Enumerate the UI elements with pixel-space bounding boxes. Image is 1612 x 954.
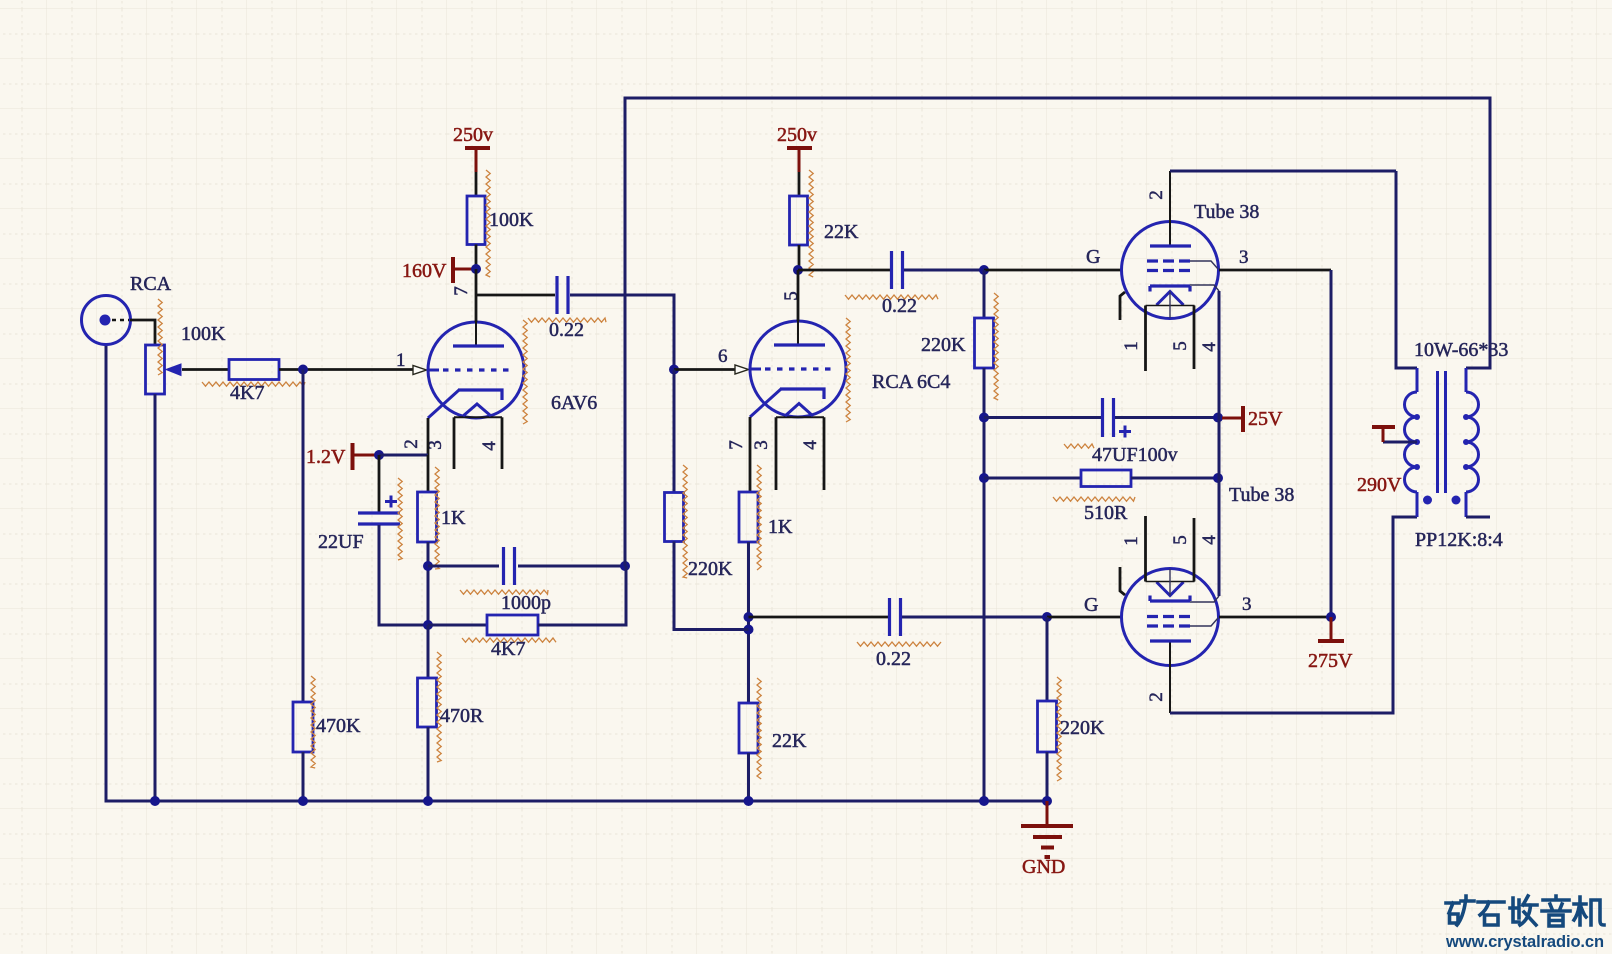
svg-text:0.22: 0.22 — [882, 295, 917, 317]
wire 220K gridleak column — [673, 370, 676, 493]
svg-text:2: 2 — [401, 439, 422, 449]
capacitor C 22UF polarized — [358, 496, 400, 525]
svg-text:0.22: 0.22 — [876, 648, 911, 670]
hatch 22UF — [398, 478, 402, 560]
capacitor C 1000p — [504, 547, 515, 585]
svg-text:470K: 470K — [316, 715, 361, 737]
svg-text:PP12K:8:4: PP12K:8:4 — [1415, 529, 1503, 551]
power port 25V — [1222, 406, 1243, 432]
svg-text:25V: 25V — [1248, 408, 1283, 430]
node junction 47UF left — [979, 413, 989, 423]
hatch 0.22 lower — [857, 642, 941, 646]
resistor R 4K7 input — [229, 360, 279, 380]
wire 470K to rail — [302, 752, 305, 801]
svg-text:22UF: 22UF — [318, 531, 364, 553]
resistor R 220K output grid — [1038, 701, 1057, 752]
hatch 1000p — [460, 590, 548, 594]
wire 47UF row — [984, 416, 1101, 419]
node junction 160V — [471, 264, 481, 274]
svg-text:1K: 1K — [768, 516, 793, 538]
resistor R 470K — [293, 702, 313, 752]
svg-text:250v: 250v — [777, 124, 817, 146]
svg-text:RCA 6C4: RCA 6C4 — [872, 371, 950, 393]
wire plate to tube1 — [475, 269, 478, 322]
wire 4K7 row left — [428, 624, 487, 627]
svg-text:1: 1 — [396, 350, 406, 371]
wire tube2 cathode pin7 — [749, 417, 752, 492]
svg-text:4: 4 — [800, 440, 821, 450]
transformer core — [1438, 371, 1446, 493]
wire screen column — [1330, 270, 1333, 617]
capacitor C 0.22 stage1 — [557, 276, 568, 314]
pentode U4 Tube 38 bottom — [1120, 516, 1219, 713]
hatch 220K bias — [994, 293, 998, 400]
wire 4K7 row right up to feedback node — [538, 566, 626, 625]
hatch 0.22 stage2 — [845, 295, 938, 299]
node junction 220K return — [744, 625, 754, 635]
resistor R 510R — [1081, 470, 1131, 487]
resistor R 22K tube2 cathode lower — [739, 703, 758, 753]
wire to tube38 top grid — [984, 269, 1122, 272]
svg-text:1000p: 1000p — [501, 592, 551, 614]
wire 22K to node — [798, 245, 801, 270]
node junction cathodyne out — [744, 612, 754, 622]
hatch 0.22 stage1 — [528, 318, 606, 322]
resistor R 220K gridleak — [665, 493, 684, 542]
power port 250v stage1 — [465, 148, 490, 172]
RCA jack J1 — [82, 296, 131, 345]
resistor R 22K plate tube2 — [790, 196, 808, 245]
power port 160V — [453, 257, 472, 283]
svg-text:290V: 290V — [1357, 474, 1402, 496]
wire 470R to rail — [427, 727, 430, 801]
svg-text:250v: 250v — [453, 124, 493, 146]
node junction tube2 grid — [669, 365, 679, 375]
svg-text:3: 3 — [1242, 594, 1252, 615]
svg-text:160V: 160V — [402, 260, 447, 282]
wire primary top lead — [1396, 171, 1417, 368]
wire 1000p row left — [428, 565, 499, 568]
svg-text:22K: 22K — [772, 730, 807, 752]
wire secondary bottom lead — [1466, 516, 1490, 519]
hatch 4K7 — [202, 382, 305, 386]
wire 1K bottom to cathode node — [747, 542, 750, 703]
node junction at 470K top — [298, 365, 308, 375]
wire plate row stage2 — [798, 269, 890, 272]
wire 1K bottom — [427, 542, 430, 678]
wire to tube38 bottom grid — [1047, 616, 1122, 619]
wire: bottom ground rail — [106, 344, 1047, 801]
svg-text:3: 3 — [751, 440, 772, 450]
node junction feedback — [620, 561, 630, 571]
wire 290V tap — [1383, 441, 1417, 444]
wire 1000p row right — [518, 565, 625, 568]
hatch pot — [158, 299, 162, 375]
hatch 100K plate — [486, 170, 490, 277]
hatch tube2 — [846, 318, 850, 422]
svg-text:G: G — [1086, 246, 1100, 268]
triode U2 RCA 6C4 — [750, 270, 846, 490]
power port 1.2V — [353, 443, 376, 470]
resistor R 1K tube1 cathode — [418, 492, 437, 542]
hatch 22K lower — [757, 678, 761, 779]
wire tube2 plate lead — [797, 270, 800, 321]
wire 220K output to rail — [1046, 752, 1049, 801]
node junction 22K rail — [744, 796, 754, 806]
svg-text:1: 1 — [1121, 536, 1142, 546]
node junction top tube grid — [979, 265, 989, 275]
capacitor C 0.22 lower — [890, 598, 901, 636]
node junction 4K7 row — [423, 620, 433, 630]
wire pot wiper to R 4K7 — [182, 368, 229, 371]
hatch 4K7 feedback — [462, 638, 556, 642]
svg-text:G: G — [1084, 594, 1098, 616]
svg-text:Tube 38: Tube 38 — [1229, 484, 1294, 506]
wire cathodyne output row — [749, 616, 889, 619]
svg-text:47UF100v: 47UF100v — [1092, 444, 1178, 466]
svg-text:100K: 100K — [489, 209, 534, 231]
hatch tube1 — [523, 320, 527, 424]
hatch 47UF — [1064, 444, 1094, 448]
svg-text:1K: 1K — [441, 507, 466, 529]
capacitor C 47UF100v — [1103, 398, 1132, 438]
node junction 470K on rail — [298, 796, 308, 806]
wire 100K to node 160V — [475, 245, 478, 270]
svg-text:GND: GND — [1022, 856, 1065, 878]
wire 250v to 22K — [798, 172, 801, 196]
pin arrow into tube1 grid — [413, 366, 427, 375]
hatch 470K — [311, 676, 315, 768]
node junction tube2 plate — [793, 265, 803, 275]
resistor R 1K tube2 cathode — [739, 492, 758, 542]
svg-text:4: 4 — [479, 441, 500, 451]
svg-text:7: 7 — [451, 286, 472, 296]
node junction 1.2V — [374, 450, 384, 460]
hatch 470R — [437, 652, 441, 762]
wire 0.22 to grid node — [904, 269, 984, 272]
node junction GND — [1042, 796, 1052, 806]
node junction pot bottom on rail — [150, 796, 160, 806]
wire 220K grid resistor column — [1046, 617, 1049, 701]
wire 47UF to cathode column — [1115, 416, 1218, 419]
potentiometer R 100K — [146, 345, 182, 801]
wire 220K bias column down — [983, 368, 986, 801]
wire 510R row right — [1131, 477, 1218, 480]
transformer T1 primary winding — [1405, 368, 1418, 517]
svg-text:3: 3 — [1239, 247, 1249, 268]
node junction bottom tube grid — [1042, 612, 1052, 622]
ground GND symbol — [1021, 801, 1073, 857]
wire to 470K — [302, 370, 305, 703]
svg-text:220K: 220K — [921, 334, 966, 356]
hatch 22K plate — [809, 170, 813, 277]
resistor R 4K7 feedback — [487, 615, 538, 635]
hatch 510R — [1053, 497, 1135, 501]
wire 220K gridleak return — [674, 542, 749, 630]
svg-text:RCA: RCA — [130, 273, 172, 295]
triode U1 6AV6 — [428, 269, 524, 469]
wire pin2 to 1K — [427, 455, 430, 492]
svg-text:220K: 220K — [688, 558, 733, 580]
node junction 470R rail — [423, 796, 433, 806]
svg-text:100K: 100K — [181, 323, 226, 345]
svg-text:470R: 470R — [440, 705, 484, 727]
svg-text:275V: 275V — [1308, 650, 1353, 672]
svg-text:6: 6 — [718, 346, 728, 367]
node junction 25V — [1213, 413, 1223, 423]
wire tube38 bottom plate to transformer — [1170, 517, 1417, 713]
node junction bias rail — [979, 796, 989, 806]
svg-text:22K: 22K — [824, 221, 859, 243]
power port 290V — [1372, 427, 1395, 442]
wire 510R row left — [984, 477, 1081, 480]
svg-text:10W-66*33: 10W-66*33 — [1414, 339, 1508, 361]
node junction 510R right — [1213, 473, 1223, 483]
svg-text:Tube 38: Tube 38 — [1194, 201, 1259, 223]
watermark logo crystalradio — [1446, 896, 1604, 926]
transformer primary tap dots — [1414, 414, 1420, 420]
svg-text:4: 4 — [1199, 535, 1220, 545]
wire 470R column — [427, 625, 430, 678]
svg-text:6AV6: 6AV6 — [551, 392, 597, 414]
wire 0.22 lower to grid node — [902, 616, 1047, 619]
svg-text:5: 5 — [1170, 535, 1191, 545]
wire 0.22 to tube2 grid — [570, 295, 674, 370]
wire 22UF bottom — [379, 525, 428, 625]
hatch 1K — [435, 467, 439, 569]
wire 22K to rail — [747, 753, 750, 801]
wire tube1 cathode pin2 — [427, 418, 430, 455]
wire 1.2V row — [379, 454, 428, 457]
resistor R 470R — [418, 678, 437, 727]
wire tube38 top plate to bus — [1170, 170, 1396, 173]
svg-text:4K7: 4K7 — [491, 638, 525, 660]
node junction 1000p row — [423, 561, 433, 571]
svg-text:1.2V: 1.2V — [306, 446, 346, 468]
svg-text:2: 2 — [1146, 692, 1167, 702]
svg-text:www.crystalradio.cn: www.crystalradio.cn — [1445, 933, 1604, 951]
wire cathode link column — [1218, 418, 1221, 597]
resistor R 100K plate — [467, 196, 485, 245]
transformer phase dots — [1423, 496, 1432, 505]
wire 4K7 to tube1 grid — [279, 368, 413, 371]
svg-text:5: 5 — [1170, 341, 1191, 351]
svg-text:7: 7 — [726, 440, 747, 450]
wire pin3 top row — [1219, 269, 1331, 272]
transformer T1 secondary winding — [1466, 368, 1479, 517]
wire RCA to pot — [130, 320, 155, 345]
wire pin3 bottom row — [1219, 616, 1331, 619]
svg-text:2: 2 — [1146, 190, 1167, 200]
capacitor C 0.22 stage2 — [892, 251, 903, 289]
wire to tube2 grid arrow — [674, 368, 735, 371]
svg-text:4K7: 4K7 — [230, 382, 264, 404]
pin arrow into tube2 grid — [735, 365, 749, 374]
power port 250v stage2 — [787, 148, 812, 172]
svg-text:0.22: 0.22 — [549, 319, 584, 341]
wire tube38 top cathode down — [1218, 291, 1221, 418]
svg-text:4: 4 — [1199, 342, 1220, 352]
node junction 275V — [1326, 612, 1336, 622]
svg-text:220K: 220K — [1060, 717, 1105, 739]
hatch 220K gridleak — [683, 465, 687, 578]
wire to 22UF — [378, 455, 381, 512]
wire plate row stage1 — [476, 294, 555, 297]
hatch 1K tube2 — [757, 465, 761, 570]
power port 275V — [1318, 617, 1344, 641]
resistor R 220K bias — [975, 318, 994, 368]
svg-text:1: 1 — [1121, 341, 1142, 351]
wire 220K bias column top — [983, 270, 986, 318]
wire top feedback bus — [625, 98, 1490, 566]
node junction 510R left — [979, 473, 989, 483]
svg-text:510R: 510R — [1084, 502, 1128, 524]
pentode U3 Tube 38 top — [1120, 171, 1219, 371]
transformer secondary tap dots — [1463, 414, 1469, 420]
hatch 220K output — [1057, 677, 1061, 781]
wire 250v to 100K — [475, 172, 478, 196]
